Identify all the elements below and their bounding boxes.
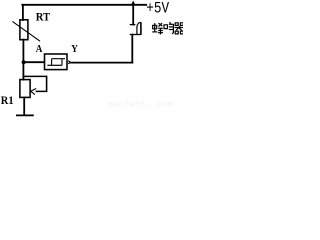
op-amp U1 schmitt trigger box <box>45 54 68 70</box>
wire buzzer top to +5V rail <box>132 5 134 25</box>
label 蜂鸣器 (buzzer) : hand drawn glyphs <box>152 22 184 34</box>
schmitt hysteresis symbol <box>47 59 65 66</box>
wire left drop from rail to RT <box>22 5 24 20</box>
power +5V arrow <box>132 1 134 5</box>
svg-text:RT: RT <box>36 10 50 24</box>
node A junction dot <box>22 60 26 64</box>
schmitt output chevron <box>68 61 70 64</box>
ground <box>16 114 34 116</box>
svg-text:manfen5. com: manfen5. com <box>108 100 173 109</box>
svg-text:A: A <box>36 43 43 55</box>
resistor RT (thermistor body) <box>12 20 40 41</box>
器 <box>175 23 178 26</box>
svg-text:Y: Y <box>71 43 78 55</box>
蜂 <box>153 25 157 29</box>
鸣 <box>164 25 167 29</box>
R1 wiper arrowhead <box>31 89 37 95</box>
wire R1 wiper loop to node A rail <box>24 76 47 91</box>
wire node A to Schmitt input <box>24 61 45 63</box>
wire ground stem <box>23 98 25 116</box>
wire buzzer bottom drop <box>131 35 133 63</box>
wire RT bottom to R1 top (left rail through node A) <box>22 40 24 80</box>
buzzer LS1 (speaker symbol) <box>130 22 141 35</box>
wire Schmitt output to buzzer branch <box>71 62 133 64</box>
svg-text:+5V: +5V <box>146 0 169 17</box>
svg-text:R1: R1 <box>1 93 14 107</box>
potentiometer R1 body <box>20 80 30 98</box>
wire top rail +5V <box>22 4 146 6</box>
